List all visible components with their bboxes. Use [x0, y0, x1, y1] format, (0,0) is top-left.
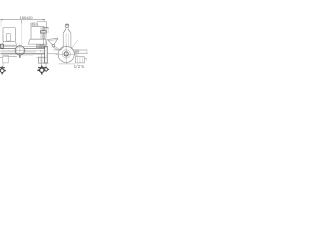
side circle crosshair — [56, 53, 78, 55]
front diverter circle — [15, 46, 24, 55]
circle bottom tick — [19, 55, 21, 58]
riser cap — [43, 27, 49, 29]
left handle inner box — [7, 34, 11, 41]
right cross knob — [37, 66, 46, 75]
svg-text:150±20: 150±20 — [20, 15, 34, 20]
body line 2 — [1, 48, 45, 50]
svg-text:1/2'6: 1/2'6 — [74, 64, 85, 69]
left handle base trapezoid — [2, 42, 17, 46]
side mini cross — [44, 67, 49, 72]
body line 3 — [1, 49, 45, 51]
right handle inner verticals — [40, 27, 42, 40]
collar bottom line — [36, 47, 45, 49]
spout under-body box — [3, 56, 8, 63]
side spout lines — [54, 49, 60, 51]
cup bottom line — [38, 62, 49, 64]
left end cap box — [0, 44, 3, 48]
fitting step — [84, 58, 86, 60]
lever funnel top — [47, 38, 58, 39]
extension line center — [21, 20, 23, 24]
handle neck — [65, 27, 67, 29]
spout outlet tick — [0, 57, 3, 59]
right handle crossbar — [41, 31, 47, 33]
shower outlet step — [37, 56, 47, 58]
label frame — [37, 22, 46, 28]
handle shoulders — [63, 29, 66, 33]
handle skirt — [60, 47, 63, 50]
body top line — [3, 46, 46, 48]
lever stem — [54, 46, 61, 50]
side body circle — [58, 46, 74, 62]
funnel hub — [52, 44, 55, 47]
shower outlet cup — [39, 57, 45, 63]
body bottom line — [1, 53, 45, 55]
circle crosshair — [14, 49, 27, 51]
riser pipe — [43, 28, 45, 48]
pipe thread ticks — [75, 49, 79, 53]
left handle outer box — [3, 28, 15, 42]
knurled collar hatch — [37, 44, 44, 48]
spout under line — [3, 55, 17, 57]
side outlet stem — [45, 63, 47, 68]
body step — [40, 50, 42, 52]
dimension line 150±20 — [1, 19, 45, 21]
label underline — [30, 25, 38, 27]
spout stem — [2, 63, 4, 67]
right handle outer box — [31, 27, 44, 40]
funnel edge line — [57, 36, 59, 40]
handle ball — [65, 24, 68, 27]
funnel sides — [48, 40, 53, 45]
tangent line below — [59, 63, 75, 65]
right handle base trapezoid — [28, 39, 47, 44]
diagonal leader — [71, 40, 78, 50]
wall pipe — [74, 49, 87, 51]
shower stem center line — [41, 54, 43, 66]
pipe end tick — [86, 49, 88, 53]
left cross knob — [0, 66, 6, 74]
end flange band — [45, 46, 48, 63]
body line 4 — [1, 51, 37, 53]
handle column — [62, 33, 64, 47]
extension line left — [0, 20, 2, 27]
bottom fitting box — [75, 57, 84, 63]
